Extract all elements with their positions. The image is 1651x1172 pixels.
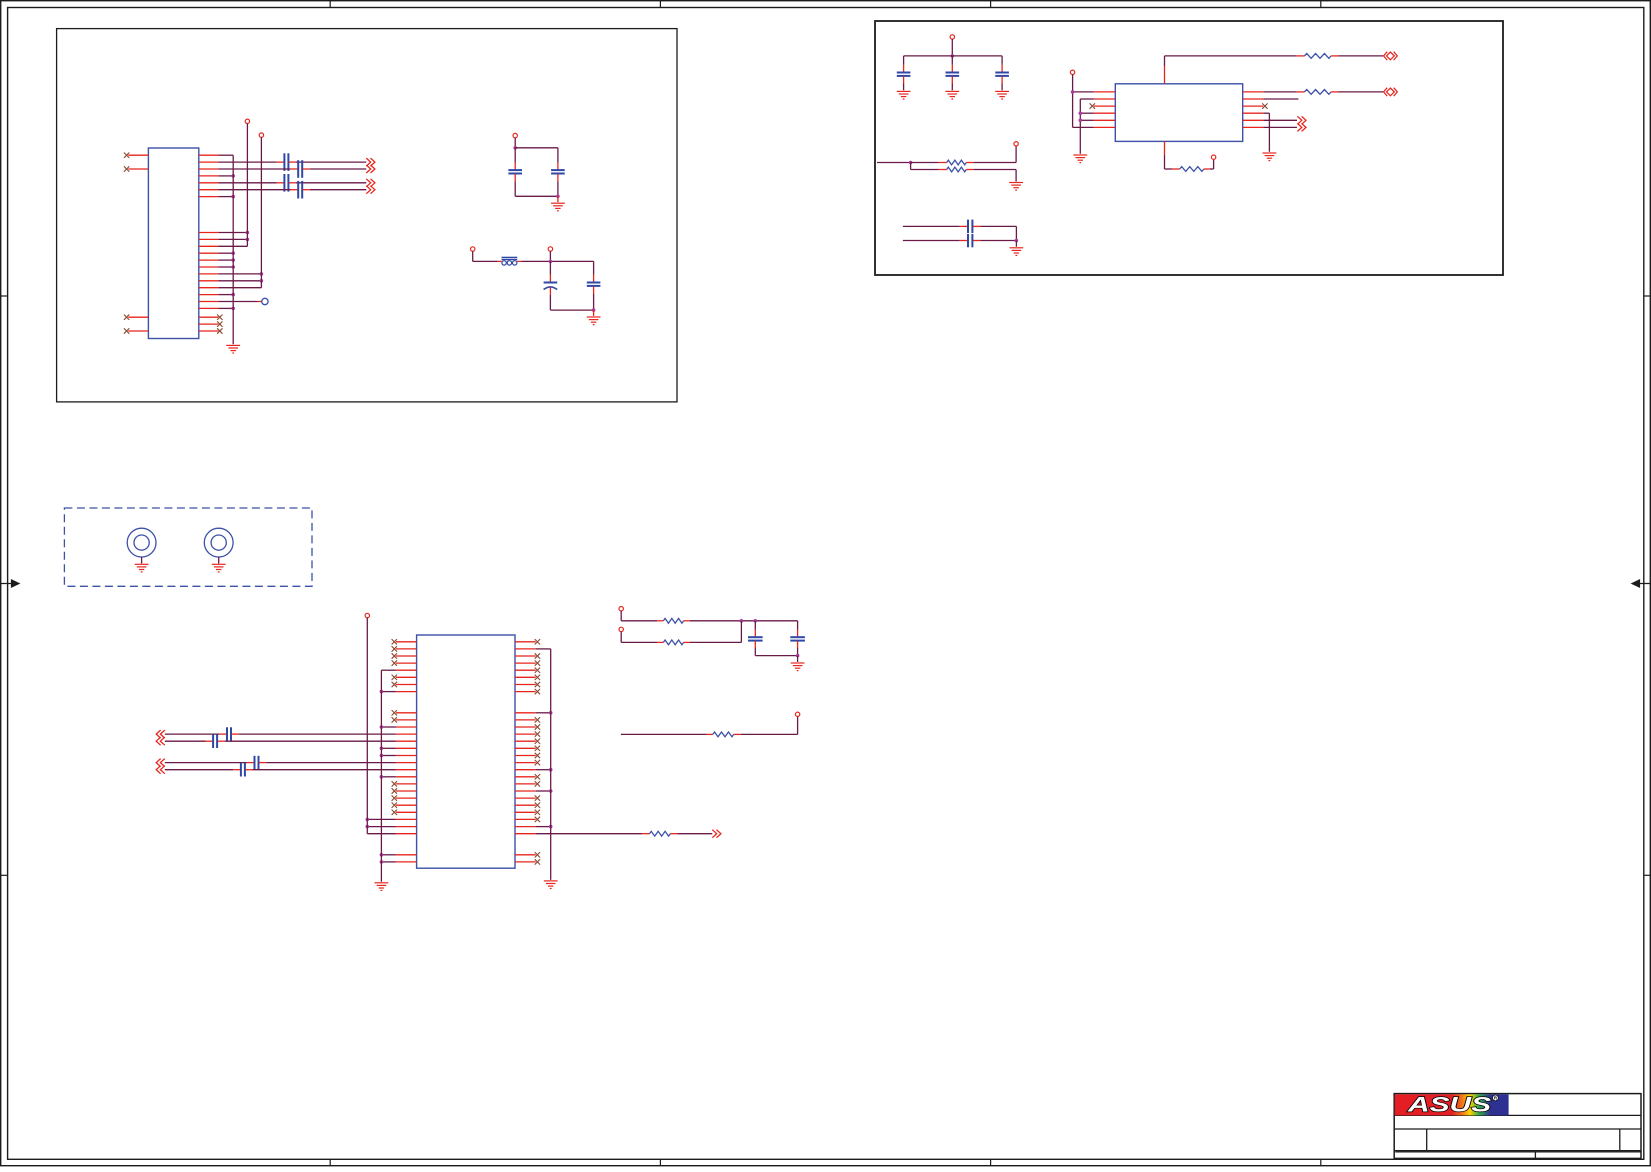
svg-text:ASUS: ASUS [1407,1093,1492,1117]
